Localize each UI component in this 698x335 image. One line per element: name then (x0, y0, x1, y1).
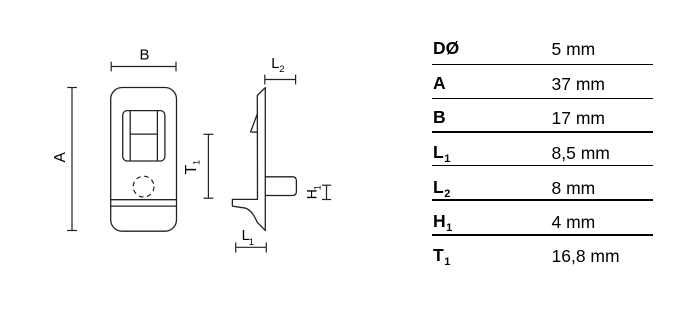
label L2 (271, 56, 284, 75)
spec table divider 4 (432, 165, 653, 166)
front view base groove lines (111, 200, 177, 206)
spec table row 1 value (552, 41, 596, 59)
spec table row 3 value (552, 110, 605, 128)
spec table row 1 label DO (433, 40, 459, 58)
svg-text:2: 2 (279, 64, 284, 75)
spec table row 3 label B (433, 109, 446, 127)
svg-text:L: L (271, 56, 279, 72)
spec table row 7 label T1 (433, 247, 450, 265)
spec table divider 5 (432, 199, 653, 200)
spec table row 5 value (552, 180, 596, 198)
side view clip tab (251, 114, 258, 132)
svg-text:1: 1 (191, 160, 201, 165)
svg-text:A: A (52, 151, 69, 162)
svg-text:B: B (139, 47, 149, 64)
side view profile (232, 88, 265, 231)
dimension A (67, 88, 77, 231)
spec table row 2 label A (433, 75, 446, 93)
dimension H1 (322, 185, 331, 199)
dimension B (111, 62, 176, 72)
dimension T1 (204, 134, 214, 198)
spec table row 4 value (552, 145, 610, 163)
spec table row 5 label L2 (433, 179, 450, 197)
svg-text:1: 1 (249, 237, 254, 248)
dimension L1 (236, 243, 267, 253)
spec table row 4 label L1 (433, 144, 450, 162)
label L1 (242, 228, 254, 248)
label H1 (303, 185, 322, 199)
spec table divider 2 (432, 98, 653, 99)
spec table divider 6 (432, 234, 653, 235)
svg-text:T: T (183, 164, 200, 174)
mounting hole dashed circle (133, 176, 154, 197)
side view peg (265, 177, 296, 196)
dimension L2 (265, 75, 296, 85)
label T1 (183, 160, 202, 175)
spec table divider 1 (432, 64, 653, 65)
spec table divider 3 (432, 131, 653, 132)
spec table row 6 value (552, 214, 596, 232)
front view latch window (123, 111, 165, 161)
spec table row 6 label H1 (433, 213, 452, 231)
spec table row 7 value (552, 248, 620, 266)
svg-text:1: 1 (312, 185, 322, 190)
front view outline (111, 88, 177, 232)
spec table row 2 value (552, 76, 605, 94)
